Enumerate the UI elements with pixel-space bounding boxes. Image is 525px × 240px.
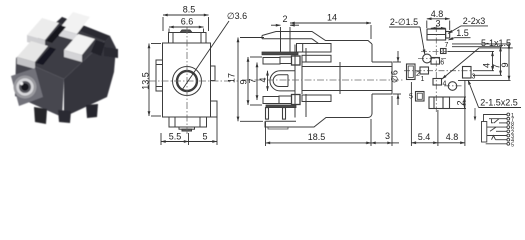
- photo bottom pin 3: [86, 104, 98, 118]
- leader 2-dia1.5: [389, 26, 420, 28]
- dim 8.5: [163, 14, 209, 16]
- photo bottom pin 2: [58, 110, 71, 123]
- dim 17: [237, 38, 239, 122]
- front bottom step 1: [169, 117, 207, 127]
- photo pin C white blade: [17, 41, 48, 62]
- front bottom step 2: [179, 127, 195, 129]
- photo barrel glint: [20, 82, 23, 85]
- side slot outer (4mm): [270, 71, 295, 91]
- footprint centerline row1: [421, 50, 450, 52]
- footprint centerline row3: [444, 85, 462, 87]
- svg-text:2: 2: [456, 100, 466, 105]
- side centerline: [242, 79, 404, 81]
- bottom pad 1.5x2.5: [429, 97, 450, 109]
- schematic wire t5: [496, 130, 507, 132]
- photo bottom pin 1: [34, 107, 47, 124]
- side upper-left contact bar: [262, 52, 298, 55]
- front boss bump: [180, 30, 192, 33]
- front right tab: [211, 66, 216, 81]
- dim 4 right: [492, 51, 494, 70]
- svg-text:13.5: 13.5: [141, 72, 151, 90]
- svg-text:4: 4: [258, 77, 268, 82]
- svg-text:4.8: 4.8: [431, 9, 444, 19]
- schematic wire t8: [486, 143, 507, 145]
- svg-text:7: 7: [248, 78, 258, 83]
- svg-text:4: 4: [482, 63, 492, 68]
- dim 6.6: [169, 26, 204, 28]
- dim 14: [290, 22, 371, 24]
- svg-text:2-1.5x2.5: 2-1.5x2.5: [480, 98, 518, 108]
- photo pin D white blade: [64, 34, 95, 55]
- side foot: [265, 118, 368, 128]
- svg-text:3: 3: [435, 19, 440, 29]
- front centerline horizontal: [149, 80, 238, 82]
- pad 3: [463, 67, 472, 79]
- svg-text:1: 1: [421, 76, 425, 83]
- svg-text:6: 6: [440, 59, 444, 66]
- svg-text:6.6: 6.6: [181, 17, 194, 27]
- photo barrel flange: [11, 68, 43, 106]
- svg-text:9: 9: [500, 62, 510, 67]
- side top pin legs (2mm): [280, 32, 282, 53]
- front centerline vertical: [186, 27, 188, 135]
- leader 2-2x3: [461, 25, 488, 27]
- svg-text:14: 14: [327, 13, 337, 23]
- front jack circle outer: [173, 67, 202, 96]
- schematic switch lower: [492, 136, 496, 140]
- svg-text:1.5: 1.5: [456, 28, 469, 38]
- dim 7: [256, 63, 258, 101]
- schematic wire t1: [484, 115, 507, 122]
- dim 2 bottom right: [464, 97, 466, 109]
- svg-text:2: 2: [416, 71, 420, 78]
- side top raised block: [297, 44, 332, 53]
- svg-text:∅6: ∅6: [390, 70, 400, 83]
- pad 5: [416, 92, 425, 102]
- dim 3 barrel: [365, 142, 371, 144]
- leader 2-1.5x2.5: [479, 107, 521, 109]
- side top flat pin: [262, 32, 372, 45]
- front body: [163, 43, 211, 117]
- front jack circle inner: [177, 71, 197, 91]
- dim 9 right: [508, 44, 510, 81]
- pad 1: [420, 67, 429, 74]
- side lower pin boxes: [263, 97, 279, 104]
- dim 5.4 / 4.8 bottom: [411, 142, 438, 144]
- hole circle 2: [448, 82, 457, 91]
- pad 7: [441, 49, 447, 54]
- photo dark slot between pins C D: [36, 47, 56, 65]
- leader 5-1x1.5: [479, 47, 513, 49]
- schematic wire t4: [487, 126, 507, 128]
- svg-text:5: 5: [202, 132, 207, 142]
- dim 18.5: [266, 142, 372, 144]
- svg-text:4: 4: [443, 81, 447, 88]
- svg-text:18.5: 18.5: [308, 132, 326, 142]
- dim 4: [267, 71, 269, 91]
- svg-text:2-∅1.5: 2-∅1.5: [390, 17, 418, 27]
- hole circle 1: [423, 54, 432, 63]
- pad 6: [431, 58, 440, 65]
- pad 2: [407, 64, 416, 80]
- photo body front face: [15, 58, 64, 117]
- photo of 3.5mm jack connector: [11, 12, 118, 124]
- side body outline: [295, 44, 372, 118]
- leader 1.5: [454, 37, 470, 39]
- side upper pin box: [263, 58, 280, 65]
- svg-text:∅3.6: ∅3.6: [227, 11, 247, 21]
- dim 4.8 top: [427, 18, 450, 20]
- svg-text:4.8: 4.8: [446, 132, 459, 142]
- side lower contact bar: [266, 105, 296, 108]
- front bottom tab: [182, 129, 192, 131]
- schematic wire t6: [487, 135, 507, 137]
- photo barrel hole: [21, 83, 29, 91]
- pad 4: [433, 79, 442, 86]
- photo body right face: [64, 36, 116, 117]
- photo pin B white blade: [59, 12, 90, 34]
- dim 7 right: [500, 47, 502, 76]
- photo dark slot between pins A B: [46, 25, 66, 43]
- svg-text:2-2x3: 2-2x3: [463, 16, 486, 26]
- svg-text:5: 5: [511, 142, 514, 148]
- front right foot: [211, 101, 218, 117]
- schematic wire t3: [499, 122, 507, 124]
- svg-text:8.5: 8.5: [183, 5, 196, 15]
- footprint centerline vertical: [435, 26, 437, 112]
- svg-text:5.4: 5.4: [418, 132, 431, 142]
- dim 13.5: [148, 44, 150, 117]
- photo barrel ring: [14, 76, 37, 99]
- svg-text:5-1x1.5: 5-1x1.5: [481, 38, 511, 48]
- dim 5.5 / 5 bottom: [161, 141, 189, 143]
- dim 3 top: [431, 27, 446, 29]
- schematic terminal numbers: [511, 113, 514, 148]
- svg-text:3: 3: [385, 131, 390, 141]
- svg-text:5: 5: [409, 94, 413, 101]
- svg-text:17: 17: [227, 73, 237, 83]
- side barrel: [372, 62, 392, 94]
- photo top edge dark band: [58, 17, 110, 41]
- leader dia 3.6: [182, 21, 229, 90]
- svg-text:7: 7: [445, 42, 449, 49]
- side cavity lines: [302, 66, 392, 68]
- photo right side pin: [104, 47, 118, 58]
- svg-text:5.5: 5.5: [169, 132, 182, 142]
- dim dia6: [397, 51, 399, 62]
- top pad 2x3: [427, 29, 446, 40]
- schematic wire t7: [496, 139, 507, 141]
- schematic terminal circles: [507, 113, 510, 116]
- dim 9: [247, 57, 249, 105]
- schematic sleeve: [482, 122, 487, 143]
- side slot inner tip: [273, 75, 288, 87]
- dim 2 top: [271, 24, 281, 26]
- front left tab: [156, 60, 163, 91]
- side bottom pin 2: [283, 108, 286, 120]
- schematic switch upper: [492, 119, 494, 123]
- side body inner verticals: [305, 48, 307, 62]
- photo dark slot right of D: [91, 40, 105, 56]
- photo pin A white blade: [27, 18, 59, 40]
- side bottom right corner: [368, 114, 372, 118]
- footprint centerline row1b: [418, 58, 446, 60]
- svg-text:3: 3: [472, 74, 476, 81]
- schematic switch mid: [490, 127, 496, 131]
- side foot notch: [268, 127, 288, 129]
- footprint centerline row2: [404, 70, 474, 72]
- schematic wire t2: [489, 118, 507, 120]
- side bottom pin 1: [266, 108, 269, 120]
- photo top face: [16, 17, 110, 79]
- svg-text:2: 2: [282, 14, 287, 24]
- schematic insertion arrow: [474, 108, 476, 117]
- front boss: [169, 33, 207, 44]
